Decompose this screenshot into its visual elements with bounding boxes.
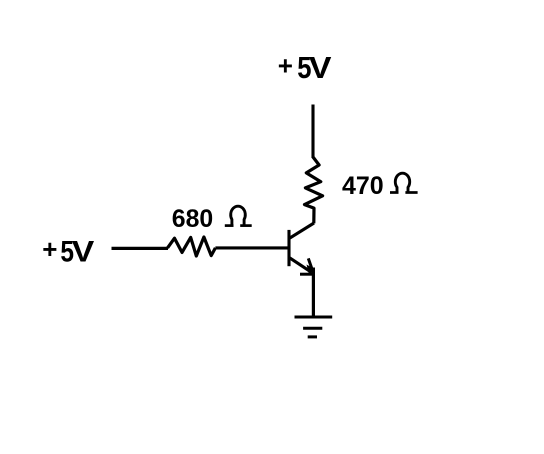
wire from +5V input to resistor R2 xyxy=(112,247,169,250)
svg-text:V: V xyxy=(309,51,332,85)
wire from +5V supply down to resistor R1 xyxy=(311,105,314,159)
ground bar 3 xyxy=(308,335,317,338)
ohm symbol for R1: right foot xyxy=(405,191,417,194)
resistor R2 680-ohm horizontal zigzag xyxy=(168,237,216,256)
svg-text:470: 470 xyxy=(342,172,384,200)
ground bar 2 xyxy=(303,327,322,330)
svg-text:680: 680 xyxy=(172,206,213,233)
node +5V label (left input) xyxy=(42,234,95,268)
svg-text:V: V xyxy=(72,234,95,268)
transistor Q1 base bar xyxy=(287,230,290,266)
node +5V label (top supply) xyxy=(278,50,332,84)
ohm symbol for R2: right foot xyxy=(240,224,252,227)
svg-text:+: + xyxy=(278,50,293,80)
ohm symbol for R2: left foot xyxy=(225,224,234,227)
transistor Q1 emitter arrow horizontal tick xyxy=(300,273,315,276)
transistor Q1 emitter arrow stroke xyxy=(308,258,312,270)
transistor Q1 emitter diagonal xyxy=(290,258,312,272)
wire from emitter to ground xyxy=(312,268,315,318)
svg-text:+: + xyxy=(42,234,57,264)
wire from R2 to base bar xyxy=(215,246,290,249)
transistor Q1 emitter arrowhead fill xyxy=(307,265,315,276)
ohm symbol for R2: ring and legs xyxy=(231,206,246,226)
ground bar 1 xyxy=(295,316,333,319)
ohm symbol for R1: ring and legs xyxy=(395,173,409,193)
resistor R1 470-ohm vertical zigzag xyxy=(305,157,323,223)
collector lead from R1 bottom to transistor bar xyxy=(290,223,314,238)
ohm symbol for R1: left foot xyxy=(390,191,399,194)
